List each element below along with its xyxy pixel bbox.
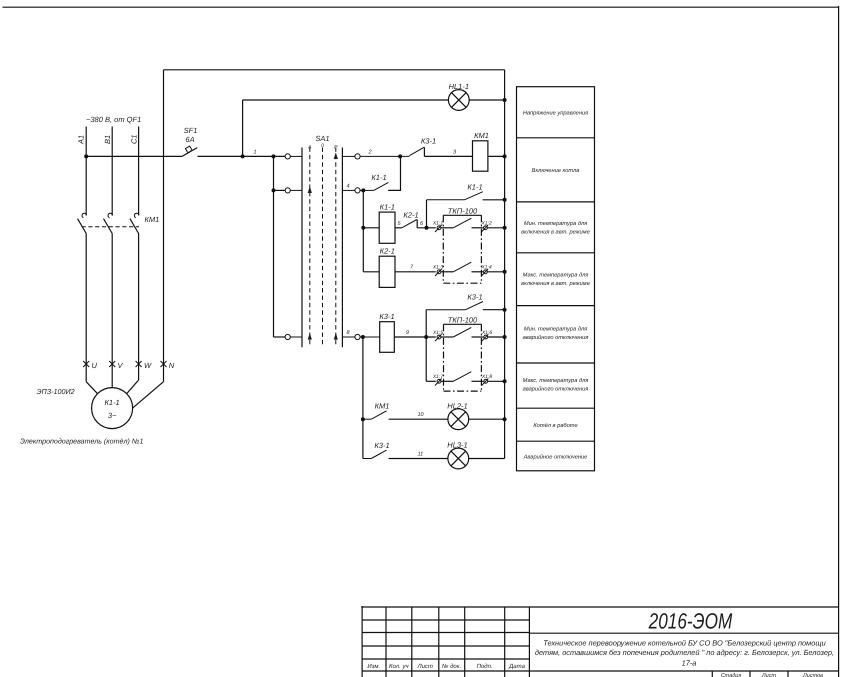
wire riser to X1:7 [426,380,436,382]
contact K1-1 seal-in on wire 4 [371,173,388,190]
SA1 arrow P row1 [334,152,338,159]
SA1 left feed bus [273,156,275,337]
label wire node 1 [254,150,257,156]
auxiliary contact K3-1 lamp row [363,441,390,459]
junction wire 8 [361,335,365,339]
wire X1:6 to bus [488,336,505,338]
svg-text:С1: С1 [129,134,138,144]
title block document code row separator [529,632,839,634]
label wire 5 [398,221,402,227]
contact K2-1 on wire 5 [402,211,419,229]
junction bypass riser on wire 9 [424,335,428,339]
svg-text:КМ1: КМ1 [375,402,390,411]
svg-text:К1-1: К1-1 [380,203,395,212]
svg-text:3: 3 [453,150,457,156]
wire X1:8 to bus [488,380,505,382]
SA1 arrow A row3 [308,333,312,340]
svg-text:HL2-1: HL2-1 [447,401,467,410]
SA1 left rail stubs [290,156,302,337]
svg-text:6: 6 [420,221,424,227]
svg-text:Х1:6: Х1:6 [481,330,493,336]
drawing frame right border [838,6,840,677]
svg-text:К3-1: К3-1 [379,312,394,321]
wire phase A1 vertical upper [85,127,87,216]
terminal V [109,361,123,370]
svg-text:3~: 3~ [108,411,117,420]
lead U to heater [86,382,97,394]
svg-text:N: N [169,361,175,370]
TKP-100 device box 1 dash-dot [443,215,481,283]
junction A1 main wire [84,154,88,158]
svg-text:Листов: Листов [802,673,823,677]
table row 7 text [533,422,577,429]
svg-text:Аварийное отключение: Аварийное отключение [523,454,588,461]
title block left grid verticals [386,607,505,677]
title block bottom thick line [362,670,839,672]
terminal X1:2 [480,221,492,233]
svg-text:Х1:7: Х1:7 [432,374,444,380]
breaker SF1 [182,126,197,156]
wire phase B1 vertical upper [111,127,113,216]
bypass contact K1-1 row [427,183,505,228]
SA1 right rail stubs [342,156,355,337]
KM1 mechanical link dashed [82,226,140,228]
svg-text:Макс. температура для: Макс. температура для [523,271,589,278]
terminal X1:3 [432,265,444,277]
svg-text:2: 2 [368,150,372,156]
SA1 left contact circle row 1 [285,154,290,159]
wire phase C1 vertical upper [138,127,140,216]
svg-text:Лист: Лист [416,663,432,670]
wire TKP2 to X1:8 [472,380,484,382]
contactor KM1 main contact pole B [104,213,113,233]
junction lamp feeder HL2-1 row [361,417,365,421]
SA1 stub row 8 left [274,336,286,338]
lamp feeder drop [362,337,364,459]
wire coil KM1 to bus [488,155,505,157]
title block outer borders [361,606,839,677]
main phase wire to SF1 [86,155,182,157]
neutral control bus vertical [504,70,506,459]
svg-text:4: 4 [347,184,350,190]
wire TKP to X1:4 [472,271,484,273]
junction wire 4 [361,188,365,192]
wire neutral N vertical [163,70,165,382]
svg-text:К3-1: К3-1 [467,293,482,302]
junction wire 6 bypass riser [425,226,429,230]
junction HL1-1 branch [241,154,245,158]
label wire 11 [418,451,424,457]
terminal X1:1 [432,221,444,233]
svg-text:Электроподогреватель (котёл) №: Электроподогреватель (котёл) №1 [20,438,143,446]
svg-text:Х1:3: Х1:3 [432,265,444,271]
wire X1:7 to TKP2 lower contact [441,380,453,382]
coil feeder riser [362,190,364,271]
table row 8 text [523,454,588,461]
svg-text:детям, оставшимся без попечени: детям, оставшимся без попечения родителе… [535,648,834,657]
SA1 left contact circle row 2 [285,188,290,193]
wire X1:2 to bus [487,227,504,229]
svg-text:Мин. температура для: Мин. температура для [524,220,587,227]
thermostat TKP-100 upper contact [448,207,478,228]
SA1 position line A dashed [309,148,311,348]
svg-text:Х1:8: Х1:8 [481,374,493,380]
title block thick divider [528,607,530,677]
bypass contact K3-1 row [426,293,504,382]
title block header row labels [367,663,525,670]
wire HL3-1 to bus [469,458,505,460]
svg-text:аварийного отключения: аварийного отключения [523,386,589,393]
SA1 arrow P row3 [334,333,338,340]
svg-text:10: 10 [418,412,425,418]
relay coil K3-1 [379,312,394,352]
svg-text:Включение котла: Включение котла [532,168,580,174]
wire 7 [395,271,436,273]
auxiliary contact KM1 lamp row [363,402,390,420]
phase label B1 [103,135,112,144]
SA1 position line P dashed [335,148,337,348]
label KM1 [145,215,160,224]
svg-text:Х1:4: Х1:4 [480,265,492,271]
label ~380 V from QF1 [86,115,141,124]
wire phase B1 vertical lower [111,234,113,388]
svg-text:включения в авт. режиме: включения в авт. режиме [521,230,590,236]
svg-text:К1-1: К1-1 [371,173,386,182]
wire to lamp HL1-1 [243,99,449,101]
label wire 4 [347,184,350,190]
table row 3 text [521,220,590,236]
junction X1:8 wire on bus [503,379,507,383]
wire X1:5 to TKP2 [441,336,453,338]
svg-text:Кол. уч: Кол. уч [389,663,409,670]
svg-text:1: 1 [254,150,257,156]
table row 1 text [523,111,588,117]
svg-text:HL1-1: HL1-1 [449,82,469,91]
svg-text:К2-1: К2-1 [403,211,418,220]
terminal W [136,361,152,370]
wire 2 [360,155,409,157]
svg-text:U: U [92,361,98,370]
wire HL2-1 to bus [469,418,505,420]
svg-text:W: W [144,361,152,370]
svg-text:Котёл в работе: Котёл в работе [533,422,577,429]
junction wire 6 on bus [503,226,507,230]
wire feeder to coil K1-1 [363,227,379,229]
svg-text:8: 8 [347,330,351,336]
svg-text:Напряжение управления: Напряжение управления [523,111,588,117]
table row 4 text [521,271,590,287]
terminal U [83,361,97,370]
phase label A1 [77,135,86,145]
junction wire 9 on bus [503,335,507,339]
svg-text:К3-1: К3-1 [421,137,436,146]
table row 5 text [523,326,589,342]
contactor coil KM1 [473,131,489,171]
thermostat TKP-100 no.2 lower contact [453,372,471,382]
svg-text:КМ1: КМ1 [145,215,160,224]
wire 10 [389,418,448,420]
svg-text:SF1: SF1 [184,126,198,135]
wire 4 [360,189,374,191]
phase label C1 [129,134,138,144]
table row 6 text [523,377,589,393]
SA1 right rail [341,148,343,348]
svg-text:ТКП-100: ТКП-100 [448,207,478,216]
junction bypass K3-1 on bus [503,308,507,312]
wire 3 [424,155,472,157]
svg-text:5: 5 [398,221,402,227]
branch wire up to HL1-1 row [242,100,244,156]
svg-text:17-а: 17-а [682,658,697,667]
table row 2 text [532,168,580,174]
svg-text:6А: 6А [185,135,194,144]
SA1 right contact circle row 1 [355,154,360,159]
relay coil K1-1 [379,203,395,244]
label electric heater boiler no.1 [20,438,143,446]
svg-text:Стадия: Стадия [721,673,742,677]
SA1 left contact circle row 3 [285,334,290,339]
label EPZ-100I2 [37,387,75,396]
wire 4 to riser [388,156,400,190]
svg-text:11: 11 [418,451,424,457]
thermostat TKP-100 no.2 upper contact [448,316,478,338]
wire feeder to coil K2-1 [363,271,379,273]
stage cells labels [721,673,823,677]
heater motor circle K1-1 3~ [92,388,133,429]
svg-text:Х1:5: Х1:5 [432,330,444,336]
SA1 position line 0 dashed [322,148,324,348]
label wire 2 [368,150,372,156]
svg-text:Дата: Дата [508,663,525,670]
document code 2016-EOM [648,608,733,633]
terminal X1:6 [481,330,493,341]
wire lamp HL1-1 to N bus [469,99,504,101]
svg-text:включения в авт. режиме: включения в авт. режиме [521,281,590,287]
relay coil K2-1 [379,247,395,288]
junction bypass K1-1 on bus [503,198,507,202]
wire X1:4 to bus [487,271,504,273]
wire 11 [389,458,448,460]
label wire 8 [347,330,351,336]
wire TKP to X1:2 [472,227,484,229]
TKP-100 device box 2 dash-dot [444,324,482,391]
svg-text:К1-1: К1-1 [104,398,119,407]
junction wire 7 on bus [503,270,507,274]
SA1 stub row 4 left [274,189,286,191]
wire phase A1 vertical lower [85,234,87,382]
neutral top wire [164,69,505,71]
svg-text:К3-1: К3-1 [374,441,389,450]
wire phase C1 vertical lower [138,234,140,381]
svg-text:2016-ЭОМ: 2016-ЭОМ [648,608,733,633]
junction HL2-1 on bus [503,417,507,421]
svg-text:Макс. температура для: Макс. температура для [523,377,589,384]
label wire 10 [418,412,425,418]
lamp HL3-1 [447,441,468,469]
SA1 right contact circle row 3 [355,334,360,339]
contactor KM1 main contact pole A [78,213,87,233]
terminal X1:4 [480,265,492,277]
junction KM1 on bus [503,154,507,158]
drawing frame top border [3,6,840,8]
junction feeder K1-1 row [361,226,365,230]
svg-text:Изм.: Изм. [367,663,380,670]
lamp HL2-1 [447,401,468,429]
svg-text:А1: А1 [77,135,86,145]
svg-text:Мин. температура для: Мин. температура для [524,326,587,333]
svg-text:9: 9 [406,330,409,336]
wire X1:3 to TKP lower contact [441,271,453,273]
svg-text:КМ1: КМ1 [474,131,489,140]
svg-text:К1-1: К1-1 [467,183,482,192]
SA1 left rail [301,148,303,348]
wire 6 [417,227,436,229]
svg-text:ЭПЗ-100И2: ЭПЗ-100И2 [37,387,75,396]
svg-text:В1: В1 [103,135,112,144]
wire 9 [394,336,436,338]
contactor KM1 main contact pole C [130,213,139,233]
title description text [535,638,834,667]
svg-text:Техническое перевооружение кот: Техническое перевооружение котельной БУ … [543,638,825,647]
svg-text:7: 7 [410,265,414,271]
svg-text:Лист: Лист [761,673,777,677]
title block left grid horizontals [362,620,529,659]
contact K3-1 on wire 2 [409,137,436,157]
svg-text:V: V [118,361,124,370]
junction SA1 bus top [272,154,276,158]
terminal X1:5 [432,330,444,341]
SA1 arrow A row2 [308,186,312,193]
switch SA1 [307,134,338,151]
wire 8 [360,336,380,338]
wire X1:1 to TKP contact [441,227,453,229]
junction HL1-1 on N bus [503,98,507,102]
junction SA1 bus row 4 [272,188,276,192]
svg-text:SA1: SA1 [315,134,329,143]
svg-text:Х1:2: Х1:2 [480,221,492,227]
svg-text:ТКП-100: ТКП-100 [448,316,478,325]
label wire 7 [410,265,414,271]
function table frame [517,87,595,471]
junction wire2 node [398,154,402,158]
terminal X1:8 [481,374,493,386]
terminal X1:7 [432,374,444,386]
wire 5 [395,227,402,229]
svg-text:аварийного отключения: аварийного отключения [523,334,589,341]
label wire 6 [420,221,424,227]
lamp HL1-1 [448,82,469,110]
terminal N [161,361,175,370]
svg-text:~380 В, от QF1: ~380 В, от QF1 [86,115,141,124]
svg-text:Подп.: Подп. [477,663,493,670]
svg-text:№ док.: № док. [442,663,461,670]
wire TKP2 to X1:6 [472,336,484,338]
lead N to heater [133,382,164,408]
label wire 3 [453,150,457,156]
stage cells verticals [712,671,788,677]
lead W to heater [127,380,139,394]
thermostat TKP-100 lower contact [453,262,471,272]
svg-text:Х1:1: Х1:1 [432,221,444,227]
wire SF1 to SA1 [198,155,286,157]
SA1 right contact circle row 2 [355,188,360,193]
label wire 9 [406,330,409,336]
svg-text:К2-1: К2-1 [380,247,395,256]
svg-text:HL3-1: HL3-1 [447,441,467,450]
